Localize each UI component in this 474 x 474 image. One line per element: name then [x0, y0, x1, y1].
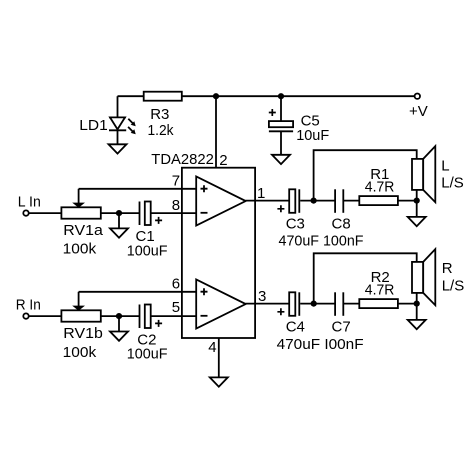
svg-text:470uF 100nF: 470uF 100nF — [279, 232, 364, 249]
wire pin 1 output to C3 — [246, 200, 290, 202]
wire wiper to pin 7 — [79, 188, 197, 190]
svg-text:2: 2 — [219, 152, 227, 169]
svg-text:+V: +V — [409, 103, 428, 120]
svg-text:L/S: L/S — [442, 277, 465, 294]
wire C4 to C7 — [300, 303, 335, 305]
svg-text:5: 5 — [172, 299, 180, 316]
svg-text:6: 6 — [172, 276, 180, 293]
speaker L — [412, 146, 435, 202]
svg-text:4.7R: 4.7R — [365, 179, 395, 196]
wire C7 to R2 — [343, 303, 359, 305]
IC U1 TDA2822 — [182, 168, 255, 338]
svg-text:8: 8 — [172, 197, 180, 214]
plus mark C1 — [155, 217, 162, 224]
svg-text:7: 7 — [172, 173, 180, 190]
terminal R In — [23, 313, 28, 318]
junction speaker L — [414, 198, 420, 204]
svg-text:TDA2822: TDA2822 — [151, 151, 214, 168]
node A junction — [116, 210, 122, 216]
resistor R3 — [144, 92, 182, 101]
wire RV1b wiper riser — [78, 292, 80, 307]
wire pin 4 to ground — [218, 338, 220, 379]
wire speaker R node ground stub — [416, 304, 418, 321]
wire RV1a wiper riser — [78, 189, 80, 204]
wire feedback to speaker R top — [314, 253, 417, 303]
svg-text:RV1a: RV1a — [63, 222, 103, 239]
wire LED branch from rail — [117, 96, 119, 118]
ground speaker R — [408, 320, 426, 329]
potentiometer RV1a — [61, 203, 100, 219]
svg-text:L/S: L/S — [441, 174, 464, 191]
svg-text:100uF: 100uF — [127, 345, 168, 362]
svg-text:100k: 100k — [63, 241, 97, 258]
svg-text:R3: R3 — [150, 106, 169, 123]
wire R2 to speaker R node — [398, 303, 417, 305]
capacitor C1 — [140, 202, 151, 226]
resistor R2 — [359, 299, 398, 308]
capacitor C7 — [335, 292, 343, 316]
svg-text:R In: R In — [16, 296, 41, 313]
svg-text:1: 1 — [257, 185, 265, 202]
capacitor C2 — [140, 305, 151, 329]
svg-text:L In: L In — [18, 193, 41, 210]
resistor R1 — [359, 196, 398, 205]
speaker R — [412, 249, 435, 305]
wire speaker L node ground stub — [416, 201, 418, 218]
ground below LED — [109, 144, 127, 153]
wire C1 to pin 8 — [151, 212, 196, 214]
svg-text:C4: C4 — [286, 318, 305, 335]
svg-text:10uF: 10uF — [296, 127, 329, 144]
svg-text:RV1b: RV1b — [63, 325, 103, 342]
wire LED cathode to ground — [117, 131, 119, 146]
svg-text:C3: C3 — [286, 216, 305, 233]
wire junction A ground stub — [118, 213, 120, 230]
LED LD1 — [109, 117, 136, 134]
plus mark C5 — [269, 109, 276, 116]
op-amp A — [196, 177, 246, 226]
plus mark C3 — [277, 205, 284, 212]
op-amp B — [196, 280, 246, 329]
wire L In to C1 — [29, 212, 139, 214]
svg-text:C7: C7 — [332, 318, 351, 335]
svg-text:3: 3 — [258, 288, 266, 305]
wire speaker R bottom to node — [416, 293, 418, 304]
ground at node A — [110, 228, 128, 237]
capacitor C4 — [289, 292, 299, 316]
wire speaker L bottom to node — [416, 190, 418, 201]
capacitor C8 — [335, 189, 343, 213]
junction C4 out — [311, 301, 317, 307]
wire C8 to R1 — [343, 200, 359, 202]
plus mark C2 — [155, 320, 162, 327]
wire C5 branch from rail — [280, 96, 282, 122]
wire junction B ground stub — [118, 316, 120, 333]
ground below C5 — [272, 155, 290, 164]
terminal L In — [23, 210, 28, 215]
wire R In to C2 — [29, 315, 139, 317]
junction rail/C5 — [278, 93, 284, 99]
svg-text:LD1: LD1 — [79, 117, 108, 134]
wire wiper to pin 6 — [79, 291, 197, 293]
svg-text:4.7R: 4.7R — [365, 282, 395, 299]
wire R1 to speaker L node — [398, 200, 417, 202]
ground pin 4 — [210, 377, 228, 386]
terminal +V — [415, 94, 420, 99]
svg-text:R: R — [442, 260, 453, 277]
capacitor C5 — [269, 121, 293, 131]
wire pin 3 output to C4 — [246, 303, 290, 305]
capacitor C3 — [289, 189, 299, 213]
junction speaker R — [414, 301, 420, 307]
wire C3 to C8 — [300, 200, 335, 202]
plus mark C4 — [277, 308, 284, 315]
ground speaker L — [408, 217, 426, 226]
wire top supply rail — [118, 95, 415, 97]
svg-text:470uF I00nF: 470uF I00nF — [277, 336, 364, 353]
svg-text:1.2k: 1.2k — [148, 122, 174, 139]
svg-text:4: 4 — [208, 339, 216, 356]
wire C2 to pin 5 — [151, 315, 196, 317]
svg-text:C8: C8 — [332, 216, 351, 233]
ground at node B — [110, 332, 128, 341]
svg-text:100uF: 100uF — [127, 242, 168, 259]
junction C3 out — [311, 198, 317, 204]
wire pin2 from rail to IC top — [215, 96, 217, 168]
wire feedback to speaker L top — [314, 150, 417, 200]
svg-text:100k: 100k — [63, 344, 97, 361]
potentiometer RV1b — [61, 306, 100, 322]
svg-text:L: L — [441, 157, 449, 174]
junction rail/pin2 — [213, 93, 219, 99]
wire C5 to ground — [280, 131, 282, 156]
node B junction — [116, 313, 122, 319]
